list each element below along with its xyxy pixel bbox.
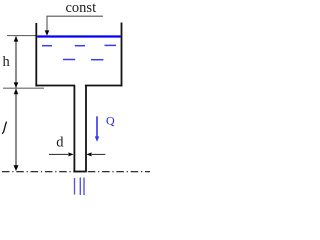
- tank bottom right: [85, 85, 123, 87]
- water dash row1 b: [75, 45, 85, 47]
- water dash row1 c: [105, 44, 117, 46]
- flow arrow Q head: [95, 136, 99, 141]
- dimension d right line: [92, 153, 105, 155]
- water jet line 2: [79, 178, 81, 196]
- dimension d left arrow: [68, 152, 73, 156]
- pipe left wall: [73, 86, 75, 172]
- dimension d right arrow: [86, 152, 91, 156]
- label l: [3, 122, 7, 133]
- water surface line: [37, 35, 120, 37]
- pipe outlet edge: [73, 171, 86, 173]
- water jet line 3: [83, 178, 85, 196]
- dimension l line: [15, 89, 17, 166]
- dimension h line: [15, 37, 17, 88]
- dimension l lower arrow: [14, 165, 19, 171]
- dimension h lower arrow: [14, 82, 19, 87]
- leader line const: [47, 16, 103, 30]
- tank left wall: [35, 23, 37, 86]
- water dash row2 a: [63, 59, 75, 61]
- centerline axis: [2, 171, 150, 173]
- water dash row2 b: [91, 59, 103, 61]
- flow arrow Q line: [96, 116, 98, 137]
- water jet line 1: [74, 178, 76, 195]
- svg-text:Q: Q: [106, 114, 115, 128]
- svg-text:const: const: [66, 0, 97, 16]
- svg-text:h: h: [3, 54, 11, 70]
- dimension d left line: [49, 153, 68, 155]
- dimension l upper arrow: [14, 89, 19, 94]
- arrow to water surface: [45, 30, 50, 35]
- svg-text:d: d: [56, 134, 64, 150]
- tank bottom left: [35, 85, 75, 87]
- dimension h upper arrow: [14, 36, 19, 41]
- pipe right wall: [85, 86, 87, 172]
- water dash row1 a: [42, 45, 52, 47]
- extension line water level: [7, 35, 37, 37]
- tank right wall: [121, 23, 123, 87]
- extension line tank bottom: [3, 87, 44, 89]
